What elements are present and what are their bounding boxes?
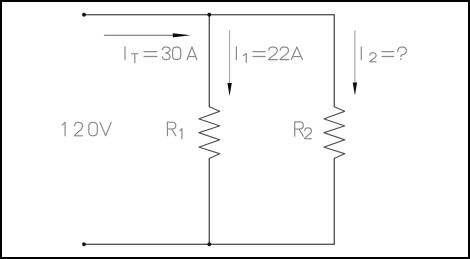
wire top horizontal — [84, 14, 334, 16]
wire middle branch upper — [208, 15, 210, 107]
label I1=22A — [236, 47, 302, 63]
arrow I1 current direction — [229, 31, 231, 84]
node source terminal top-left — [82, 13, 86, 17]
label IT=30A — [125, 47, 197, 63]
wire middle branch lower — [208, 158, 210, 244]
wire right branch upper — [333, 15, 335, 107]
arrow IT current direction — [104, 34, 174, 36]
label 120V source voltage — [62, 122, 111, 136]
label R2 — [295, 122, 312, 139]
label R1 — [167, 122, 182, 139]
node source terminal bottom-left — [82, 242, 86, 246]
node junction top — [207, 13, 211, 17]
label I2=? — [361, 47, 406, 62]
node junction bottom — [207, 242, 211, 246]
arrow I2 current direction — [354, 31, 356, 83]
resistor R2 — [324, 107, 345, 159]
wire right branch lower — [333, 158, 335, 244]
resistor R1 — [199, 107, 220, 159]
wire bottom horizontal — [84, 243, 334, 245]
